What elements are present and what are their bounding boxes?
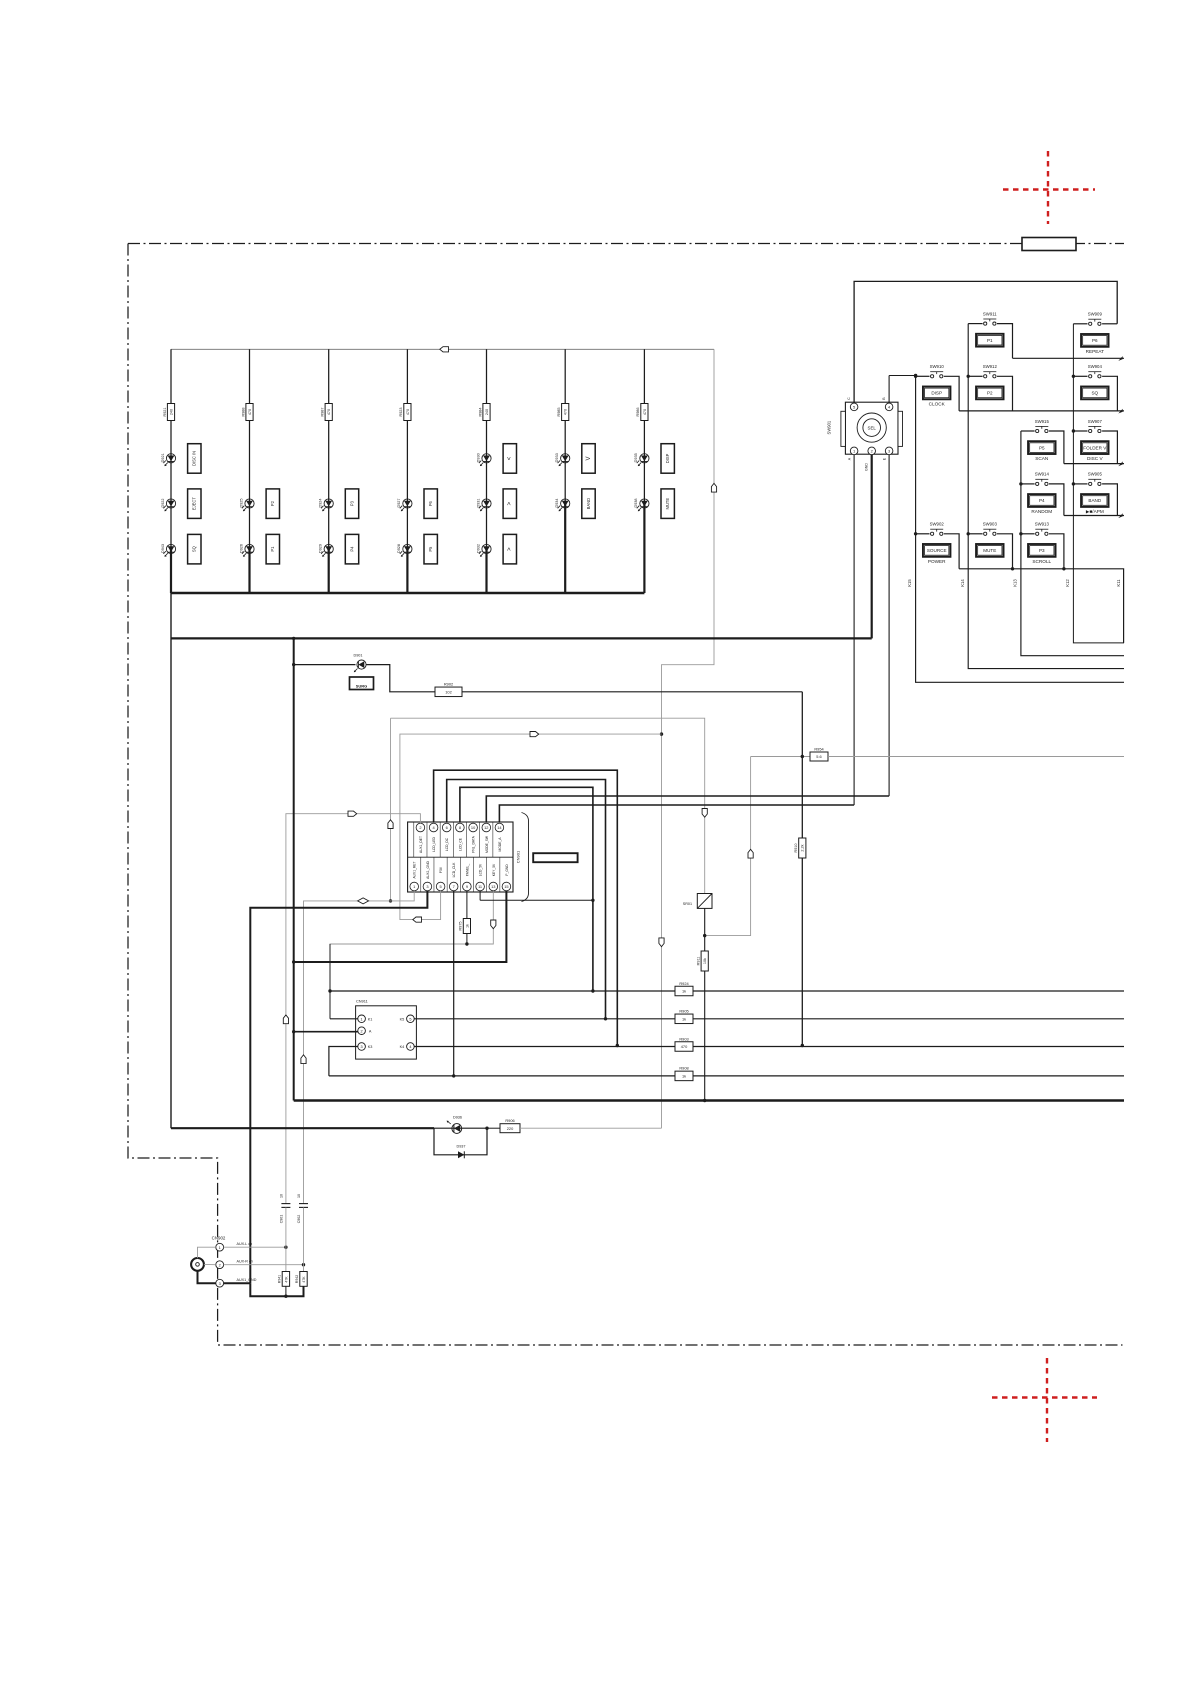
resistor R986 <box>641 404 648 421</box>
svg-text:LCD_5V: LCD_5V <box>479 863 483 876</box>
resistor R987 <box>325 404 332 421</box>
wire: SW904 right stub down <box>1102 376 1117 411</box>
key label box P5 for D928 <box>424 534 437 564</box>
wire: K1 line to page edge <box>693 990 1124 992</box>
junction pin7/K3 line <box>452 1074 455 1077</box>
svg-text:R921: R921 <box>163 407 167 416</box>
svg-text:R985: R985 <box>557 407 561 416</box>
svg-text:P2: P2 <box>987 391 993 396</box>
svg-text:AUX1_GND: AUX1_GND <box>426 860 430 878</box>
svg-text:470: 470 <box>564 409 568 415</box>
wire: to R906 <box>487 1127 500 1129</box>
switch SW915 (P5 SCAN) <box>1028 419 1056 461</box>
svg-text:AUX1_GND: AUX1_GND <box>237 1278 257 1282</box>
svg-text:D929: D929 <box>319 544 323 553</box>
wire: SW907 right stub down <box>1102 431 1117 464</box>
svg-text:R986: R986 <box>636 407 640 416</box>
svg-text:470: 470 <box>327 409 331 415</box>
junction x390/AUX-R line <box>389 899 392 902</box>
switch SW909 (P6 REPEAT) <box>1081 312 1109 354</box>
svg-text:SW915: SW915 <box>1035 419 1050 424</box>
key label box DISC IN for D921 <box>188 444 201 474</box>
key label box P4 for D929 <box>345 534 358 564</box>
wire: R906 to rail return (gray) <box>520 1127 662 1129</box>
board outline border (dash-dot) <box>128 244 1124 1346</box>
svg-text:SQ: SQ <box>1091 391 1098 396</box>
capacitor C901 <box>280 1194 291 1247</box>
svg-text:R984: R984 <box>478 407 482 416</box>
svg-text:5: 5 <box>409 1017 411 1021</box>
arrow on pin13 wire <box>491 920 496 929</box>
LED D934 <box>555 498 570 511</box>
svg-text:13: 13 <box>491 884 495 889</box>
crop tick row4 <box>1118 513 1122 518</box>
switch SW903 (MUTE) <box>976 522 1004 557</box>
FFC bar marker beside CN901 <box>533 853 577 862</box>
key label box EJECT for D922 <box>188 489 201 519</box>
junction GND line / CN911-A drop <box>292 637 295 640</box>
svg-text:D931: D931 <box>476 498 480 507</box>
svg-text:D927: D927 <box>397 498 401 507</box>
wire: CN901 pin3 AUX GND <box>250 891 427 1283</box>
wire: panel line to SR01 (gray) <box>391 718 705 893</box>
svg-text:K11: K11 <box>1116 579 1121 587</box>
svg-text:SCROLL: SCROLL <box>1032 559 1051 564</box>
svg-text:1k: 1k <box>682 1074 686 1079</box>
svg-text:SW907: SW907 <box>1088 419 1103 424</box>
wire: LED cathode bus (bottom) <box>171 592 644 595</box>
red registration cross bottom (vertical) <box>1046 1358 1048 1442</box>
wire: R975 to pin13 line <box>466 934 468 945</box>
svg-text:3: 3 <box>219 1281 221 1286</box>
wire: SW902 left stub <box>916 533 930 535</box>
svg-text:C902: C902 <box>297 1215 301 1224</box>
resistor R910 <box>799 838 806 858</box>
wire: CN911 K5 to R905 <box>414 1018 675 1020</box>
svg-text:K1: K1 <box>368 1017 373 1021</box>
resistor R941 <box>282 1272 289 1287</box>
svg-text:SW911: SW911 <box>983 311 997 316</box>
red registration cross bottom (horizontal) <box>992 1396 1097 1398</box>
svg-text:D924: D924 <box>319 498 323 507</box>
junction SR01 node <box>703 934 706 937</box>
svg-text:SW912: SW912 <box>983 364 998 369</box>
connector CN911 <box>356 999 417 1060</box>
crop tick row1 <box>1118 356 1122 361</box>
key label box DISP for D935 <box>661 444 674 474</box>
wire: LED rail return (gray) <box>662 349 715 1128</box>
wire: R941 to ground loop <box>285 1286 287 1296</box>
diode D937 <box>434 1128 487 1158</box>
wire: jack ring to pin2 <box>204 1263 216 1265</box>
signal arrow on LED rail <box>440 347 449 352</box>
svg-text:9: 9 <box>466 884 468 889</box>
wire: to D901 <box>294 664 356 666</box>
arrow to pin5 <box>413 917 422 922</box>
svg-text:240: 240 <box>485 409 489 415</box>
wire: SW907 left stub <box>1073 430 1087 432</box>
svg-text:P1: P1 <box>270 546 275 552</box>
svg-text:K14: K14 <box>960 579 965 587</box>
svg-text:MODE_SW: MODE_SW <box>485 835 489 853</box>
svg-text:DISP: DISP <box>665 453 670 463</box>
svg-text:DISP: DISP <box>931 391 942 396</box>
wire: SW905 right stub down <box>1102 484 1117 516</box>
key label box < for D930 <box>503 444 516 474</box>
wire: AUX-R from pin2 <box>224 1264 304 1266</box>
resistor R984 <box>483 404 490 421</box>
svg-text:R954: R954 <box>814 747 824 752</box>
wire: encoder pin4 to K15 <box>889 375 916 377</box>
key label box > for D932 <box>503 534 516 564</box>
rotary encoder SW901 <box>826 397 902 471</box>
switch SW914 (P4 RANDOM) <box>1028 472 1056 514</box>
svg-text:CN911: CN911 <box>356 999 368 1004</box>
svg-text:R988: R988 <box>241 407 245 416</box>
svg-text:1k: 1k <box>682 1016 686 1021</box>
wire: R954 left (gray) <box>751 756 810 758</box>
arrow on LED rail return <box>711 483 716 492</box>
wire: SW911 left stub <box>968 323 982 325</box>
svg-text:D928: D928 <box>397 544 401 553</box>
wire: R910 to K4 line <box>801 858 803 1046</box>
svg-text:D901: D901 <box>353 654 362 658</box>
connector CN902 (AUX jack) <box>191 1236 257 1288</box>
wire: CN911 A to GND drop <box>294 1031 358 1033</box>
switch SW912 (P2) <box>976 364 1004 399</box>
svg-text:LCD_CE: LCD_CE <box>458 837 462 851</box>
LED D938 <box>634 498 649 511</box>
key label box BAND for D934 <box>582 489 595 519</box>
svg-text:AUX1_DET: AUX1_DET <box>419 836 423 853</box>
svg-text:CN902: CN902 <box>212 1236 226 1241</box>
svg-text:EJECT: EJECT <box>192 497 197 510</box>
resistor R911 <box>701 951 708 971</box>
wire: drop to R954 node <box>801 692 803 757</box>
svg-text:P6: P6 <box>428 500 433 506</box>
wire: LED col1 extension down to D936 line <box>170 593 172 1128</box>
svg-text:SW904: SW904 <box>1088 364 1103 369</box>
svg-text:2: 2 <box>361 1029 363 1033</box>
wire: illumination return to D936 <box>171 1127 434 1129</box>
switch SW910 (DISP CLOCK) <box>923 364 951 406</box>
svg-text:R911: R911 <box>697 957 701 966</box>
svg-text:SURG: SURG <box>356 683 368 688</box>
svg-text:47K: 47K <box>284 1276 288 1283</box>
svg-text:P3: P3 <box>1039 548 1045 553</box>
svg-text:D938: D938 <box>634 498 638 507</box>
svg-text:D930: D930 <box>476 453 480 462</box>
arrow on SR01 wire <box>702 809 707 818</box>
arrow on R954 branch <box>748 849 753 858</box>
wire: SW915 right stub down <box>1049 431 1064 464</box>
wire: jack sleeve to pin3 <box>198 1271 216 1283</box>
svg-text:P4: P4 <box>1039 498 1045 503</box>
svg-text:3: 3 <box>361 1045 363 1049</box>
wire: LED column 2 <box>249 349 251 549</box>
svg-text:1: 1 <box>361 1017 363 1021</box>
diamond marker on AUX-R line <box>358 898 369 904</box>
svg-text:1: 1 <box>413 884 415 889</box>
resistor R921 <box>167 404 174 421</box>
LED D932 <box>476 544 491 557</box>
key label box MUTE for D938 <box>661 489 674 519</box>
LED D943 <box>161 544 176 557</box>
svg-text:K13: K13 <box>1013 579 1018 587</box>
wire: R954 line to page edge (gray) <box>828 756 1124 758</box>
svg-text:K15: K15 <box>907 579 912 587</box>
switch SW905 (BAND APM) <box>1081 472 1109 514</box>
svg-text:1k: 1k <box>465 924 469 928</box>
svg-text:SW913: SW913 <box>1035 522 1050 527</box>
svg-text:KEY_5V: KEY_5V <box>492 863 496 876</box>
wire: K4 line to page edge <box>693 1046 1124 1048</box>
svg-text:10: 10 <box>297 1194 301 1198</box>
svg-text:CN901: CN901 <box>516 850 521 863</box>
wire: SW915 left stub <box>1021 430 1035 432</box>
wire: encoder pin5 to SW909 <box>854 281 1117 403</box>
wire: CN901 pin5 panel loop (gray) <box>400 734 662 920</box>
svg-text:AUX1_RET: AUX1_RET <box>413 861 417 878</box>
wire: LED column 2 lower (thick) <box>248 549 250 593</box>
wire: encoder pin1 down <box>853 455 855 805</box>
svg-text:6: 6 <box>446 825 448 830</box>
svg-text:10k: 10k <box>703 958 707 964</box>
red registration cross top (vertical) <box>1047 151 1049 224</box>
wire: LED column 7 <box>643 349 645 503</box>
resistor R906 <box>500 1124 520 1133</box>
svg-text:SW905: SW905 <box>1088 472 1103 477</box>
svg-text:BAND: BAND <box>1088 498 1101 503</box>
svg-text:5.6: 5.6 <box>816 754 821 759</box>
wire: LED column 6 lower (thick) <box>564 504 566 594</box>
svg-text:R941: R941 <box>277 1275 281 1283</box>
resistor R905 <box>675 1014 693 1024</box>
svg-text:2.2k: 2.2k <box>801 844 805 851</box>
svg-text:SW903: SW903 <box>983 522 998 527</box>
svg-text:BAND: BAND <box>586 498 591 509</box>
junction LED-return / panel line <box>660 732 663 735</box>
wire: down to R910 <box>801 757 803 839</box>
svg-text:SEL: SEL <box>868 425 877 430</box>
svg-text:5: 5 <box>440 884 442 889</box>
LED D929 <box>319 544 334 557</box>
wire: LED column 1 lower (thick) <box>170 549 172 593</box>
junction R910/K4 line <box>801 1044 804 1047</box>
resistor R924 <box>675 986 693 996</box>
svg-text:470: 470 <box>248 409 252 415</box>
wire: LED column 6 <box>564 349 566 503</box>
resistor R903 <box>675 1042 693 1052</box>
wire: CN911 K3 down <box>329 1047 358 1076</box>
wire: LED column 5 <box>486 349 488 549</box>
wire: GND line to LED block <box>171 637 872 639</box>
svg-text:1k: 1k <box>682 989 686 994</box>
svg-text:R903: R903 <box>679 1036 688 1041</box>
svg-text:8: 8 <box>459 825 461 830</box>
LED D931 <box>476 498 491 511</box>
svg-text:R906: R906 <box>505 1118 514 1123</box>
diode D936 <box>434 1116 487 1134</box>
alignment box on border <box>1022 238 1076 251</box>
svg-text:D922: D922 <box>161 498 165 507</box>
svg-text:K3: K3 <box>368 1045 373 1049</box>
wire: LED column 1 <box>170 349 172 549</box>
svg-text:1: 1 <box>219 1245 221 1250</box>
svg-text:LCD_DC: LCD_DC <box>445 837 449 851</box>
svg-text:>: > <box>507 501 513 505</box>
svg-text:15: 15 <box>504 884 508 889</box>
wire: key row5 / K11 line <box>959 569 1124 643</box>
svg-text:R923: R923 <box>399 407 403 416</box>
svg-text:P1: P1 <box>987 338 993 343</box>
wire: key row2 return <box>959 410 1124 412</box>
svg-text:P2: P2 <box>270 500 275 506</box>
crop tick row3 <box>1118 461 1122 466</box>
svg-text:SW910: SW910 <box>930 364 945 369</box>
wire: LED anode rail (top) <box>171 348 714 350</box>
svg-text:AUX-L ch: AUX-L ch <box>237 1242 253 1246</box>
svg-text:SQ: SQ <box>192 546 197 552</box>
key label box P2 for D925 <box>266 489 279 519</box>
wire: GND drop from encoder line <box>293 638 295 1100</box>
crop tick row2 <box>1118 409 1122 414</box>
wire: LED column 7 lower (thick) <box>643 504 645 594</box>
wire: SW910 left stub <box>916 375 930 377</box>
wire: SW902 right stub down <box>944 534 959 569</box>
arrow on x390 drop <box>388 820 393 829</box>
svg-text:MUTE: MUTE <box>983 548 996 553</box>
junction pin11/pin8 harness <box>591 899 594 902</box>
svg-text:R908: R908 <box>679 1066 688 1071</box>
svg-text:SR01: SR01 <box>683 902 692 906</box>
svg-text:C: C <box>847 397 851 400</box>
wire: SW913 right stub down <box>1049 534 1064 569</box>
junction GND drop/CN911-A <box>292 1030 295 1033</box>
svg-text:>: > <box>507 547 513 551</box>
wire: SW905 left stub <box>1073 483 1087 485</box>
svg-text:R905: R905 <box>679 1009 688 1014</box>
wire: SW910 right stub down <box>944 376 959 411</box>
wire: LED column 3 <box>328 349 330 549</box>
svg-text:10: 10 <box>280 1194 284 1198</box>
arrow on AUX-L drop <box>283 1015 288 1024</box>
svg-text:R902: R902 <box>444 682 453 687</box>
wire: CN911 K4 to R903 <box>414 1046 675 1048</box>
wire: SW904 left stub <box>1073 375 1087 377</box>
wire: CN911 K1 stub <box>330 1018 358 1020</box>
wire: key row3 return <box>1064 463 1124 465</box>
junction pin4/K15 <box>914 374 917 377</box>
svg-text:K5: K5 <box>400 1017 405 1021</box>
resistor R908 <box>675 1071 693 1081</box>
wire: SW903 right stub down <box>997 534 1013 569</box>
svg-text:P5V: P5V <box>439 866 443 873</box>
LED D928 <box>397 544 412 557</box>
wire: AUX ground loop <box>250 1283 303 1296</box>
wire: CN901 pin13 (gray) to K1 node <box>330 891 493 1019</box>
wire: K3 line to page edge <box>693 1075 1124 1077</box>
wire: CN901 pin1 AUX-R (gray) <box>304 891 415 1203</box>
svg-text:GND: GND <box>865 463 869 471</box>
wire: main GND bus <box>294 1099 1124 1101</box>
svg-text:DISC IN: DISC IN <box>192 451 197 466</box>
svg-text:AUX-R ch: AUX-R ch <box>237 1260 253 1264</box>
svg-text:P6: P6 <box>1092 338 1098 343</box>
junction D901 branch <box>292 663 295 666</box>
svg-text:▶■/APM: ▶■/APM <box>1086 509 1104 514</box>
resistor R975 <box>463 919 470 934</box>
svg-text:D934: D934 <box>555 498 559 507</box>
svg-text:REPEAT: REPEAT <box>1086 349 1105 354</box>
wire: K5 line to page edge <box>693 1018 1124 1020</box>
svg-text:R987: R987 <box>321 407 325 416</box>
junction R975/pin13 line <box>465 942 468 945</box>
svg-text:SW909: SW909 <box>1088 312 1103 317</box>
resistor R954 <box>810 752 828 761</box>
svg-text:P5: P5 <box>428 546 433 552</box>
wire: R954 branch down (gray) <box>705 757 751 936</box>
wire: AUX-L to R941 <box>285 1247 287 1271</box>
svg-text:470: 470 <box>643 409 647 415</box>
resistor R902 <box>435 687 462 697</box>
svg-text:102: 102 <box>445 689 452 694</box>
wire: encoder pin3 down <box>888 455 890 796</box>
wire: encoder pin4 up <box>888 376 890 404</box>
wire: SW909 right stub <box>1102 323 1117 325</box>
svg-text:MODE_A: MODE_A <box>498 837 502 852</box>
wire: LED column 4 <box>406 349 408 549</box>
wire: CN901 pin6 harness to K5 <box>447 780 606 1019</box>
wire: SW912 left stub <box>968 375 982 377</box>
resistor R988 <box>246 404 253 421</box>
svg-text:K4: K4 <box>400 1045 405 1049</box>
wire: encoder pin2 (GND) down <box>871 455 873 639</box>
illumination diode D901 <box>353 654 366 673</box>
connector CN901 <box>408 813 529 902</box>
svg-text:4: 4 <box>409 1045 411 1049</box>
SURG label box <box>350 677 374 690</box>
surge absorber SR01 <box>697 894 712 909</box>
svg-text:D933: D933 <box>555 453 559 462</box>
key label box > for D931 <box>503 489 516 519</box>
wire: K13 line <box>1021 431 1124 656</box>
wire: SW903 left stub <box>968 533 982 535</box>
arrow on LED rail return lower <box>659 938 664 947</box>
LED D933 <box>555 453 570 466</box>
wire: K3 line left part <box>329 1075 675 1077</box>
arrow on AUX-R drop <box>301 1055 306 1064</box>
switch SW907 (FOLDER/DISC) <box>1081 419 1109 461</box>
wire: CN901 pin9 to R975 <box>466 891 468 919</box>
svg-text:P4: P4 <box>349 546 354 552</box>
key label box P1 for D926 <box>266 534 279 564</box>
svg-text:D921: D921 <box>161 453 165 462</box>
wire: panel line drop at x390 (gray) <box>390 718 392 901</box>
junction AUX-R <box>302 1263 305 1266</box>
svg-text:2: 2 <box>219 1262 221 1267</box>
svg-text:D932: D932 <box>476 544 480 553</box>
wire: AUX GND from pin3 <box>224 1282 251 1284</box>
svg-text:P5: P5 <box>1039 445 1045 450</box>
wire: CN901 pin15 P_GND <box>294 891 507 962</box>
wire: R911 to GND bus <box>704 971 706 1101</box>
switch SW913 (P3 SCROLL) <box>1028 522 1056 564</box>
LED D925 <box>239 498 254 511</box>
svg-text:D943: D943 <box>161 544 165 553</box>
wire: key row4 return <box>1064 515 1124 517</box>
svg-text:SW901: SW901 <box>826 420 831 434</box>
